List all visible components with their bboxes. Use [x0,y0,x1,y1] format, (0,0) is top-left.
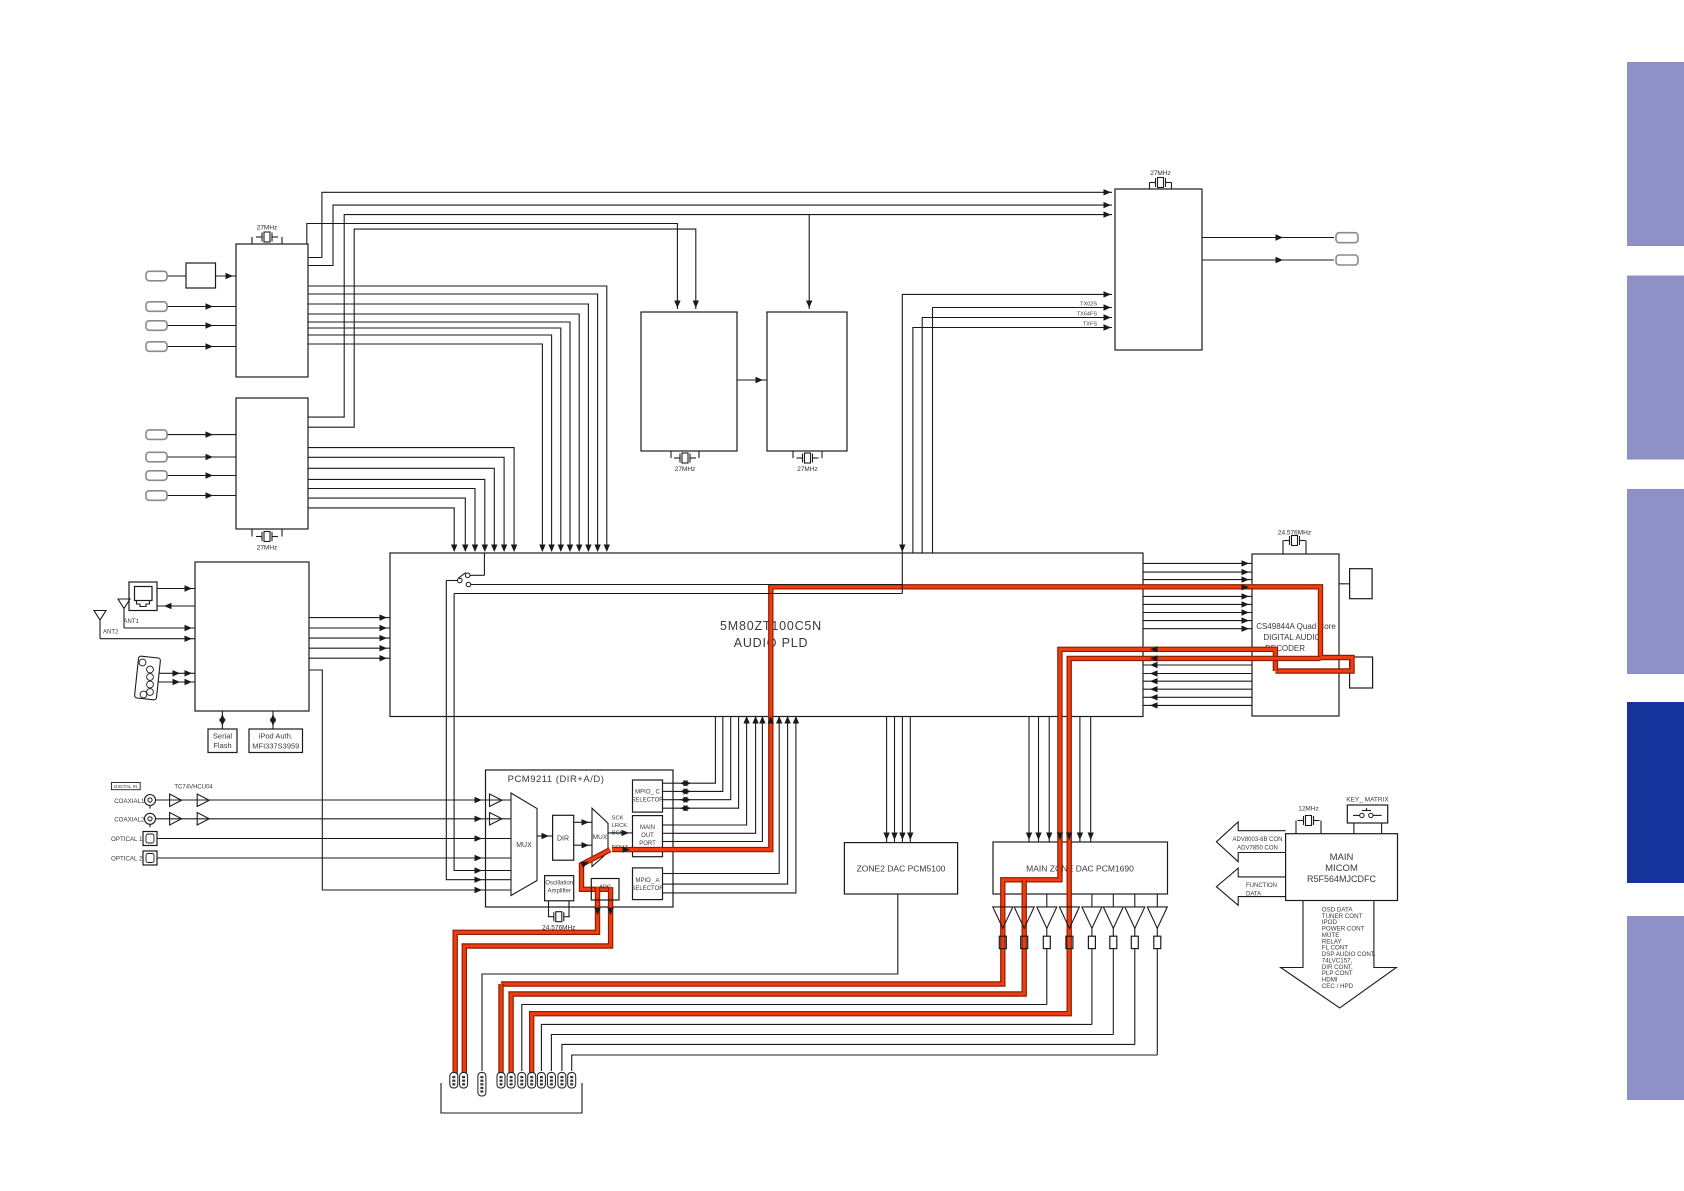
wire: ANT1 to U7 [124,627,195,629]
wire: PLD to PCM9211 MPIO_C line 2 [673,717,723,792]
wire: OPTICAL 1 to PCM9211 [157,838,486,840]
wire: DIN to U7 line 1 (bidirectional) [159,672,196,674]
svg-text:MAIN: MAIN [1330,852,1354,863]
connector pin 9 [547,1073,555,1089]
svg-text:PCM9211 (DIR+A/D): PCM9211 (DIR+A/D) [508,774,605,785]
wire TX64FS: PLD to U5 [922,318,1112,554]
wire: U2 output to U3 clock line [308,229,696,427]
svg-text:SCK: SCK [612,816,624,822]
connector pin 2 [460,1073,468,1089]
wire: branch of line 3 down into U4 [808,215,810,309]
antenna ANT2 [94,611,106,621]
svg-text:ADV7850 CON: ADV7850 CON [1237,845,1278,851]
crystal X4 27MHz under U4 [792,451,794,458]
audio PLD U6 5M80ZT100C5N [390,553,1143,717]
svg-text:12MHz: 12MHz [1298,806,1319,813]
outline arrow: micom function data connector [1216,868,1285,905]
outline arrow: micom control signals down [1281,901,1397,1008]
svg-text:MFI337S3959: MFI337S3959 [252,742,299,751]
wire: DIN to U7 line 2 (bidirectional) [159,681,196,683]
svg-text:LRCK: LRCK [612,823,628,829]
svg-text:ANT2: ANT2 [103,630,119,636]
wire: U1 top output to U3 [307,224,678,310]
HDMI switch IC block U1 (top-left) [236,244,308,377]
wire bundle: U2 outputs to PLD top (7 lines) [308,448,514,549]
svg-text:OPTICAL 1: OPTICAL 1 [111,836,143,843]
digital receiver U11 PCM9211 (DIR+A/D) [486,770,674,907]
red wire: CS49844A I2S out 2 through PLD and main DAC amp4 to pin 7 [532,658,1321,1073]
svg-text:ADV8003-8B CON: ADV8003-8B CON [1232,837,1282,843]
resistor R at x=1002.8 [999,936,1006,948]
svg-text:MICOM: MICOM [1325,863,1358,874]
page tab 2 [1627,276,1684,460]
wire group: PLD to zone2 DAC already drawn; zone2 DAC output to pin 3 [482,894,898,1071]
arrow on red ADC-to-MUX line [580,859,590,868]
svg-text:SELECTOR: SELECTOR [631,798,664,804]
connector pin 5 [507,1073,515,1089]
MPIO_C selector block inside PCM9211 [633,780,663,812]
wire: U7 to serial flash (bidirectional) [221,711,223,729]
resistor R at x=1046.8 [1043,936,1050,948]
amplifier A at x=1113.3 [1112,894,1114,907]
wire: HDMI input 7 to U2 [167,475,236,477]
wire: RJ45 to U7 [157,588,195,590]
arrows on red ADC outputs below PCM9211 [594,908,600,916]
outline arrow: micom to ADV8003/ADV7850 connector [1216,822,1285,862]
svg-text:MPIO_ A: MPIO_ A [635,878,659,884]
wire: PCM9211 main out BCK to PLD [673,717,762,842]
svg-text:24.576MHz: 24.576MHz [542,925,575,932]
svg-text:KEY_ MATRIX: KEY_ MATRIX [1346,797,1389,804]
output MUX inside PCM9211 [592,808,608,866]
crystal X8 24.576MHz under PCM9211 oscillation amp [548,901,550,917]
wire: OPTICAL 2 to PCM9211 [157,857,486,859]
page tab 1 [1627,62,1684,246]
wire: PLD to PCM9211 MPIO_C line 4 [673,717,739,809]
main micom U14 R5F564MJCDFC [1286,834,1398,901]
buffer amps on COAXIAL1 [170,794,182,807]
svg-text:R5F564MJCDFC: R5F564MJCDFC [1307,874,1377,884]
memory box right of CS49844A [1350,569,1373,599]
DIR block inside PCM9211 [553,815,574,860]
svg-text:CS49844A Quad Core: CS49844A Quad Core [1256,622,1336,631]
wire TX02S: PLD to U5 [933,308,1113,554]
crystal X3 27MHz under U3 [670,451,672,458]
wire: HDMI input 5 to U2 [167,434,236,436]
wires: PCM9211 inputs to MUX [486,799,512,801]
arrow on red DOUT line [623,846,631,852]
wire: COAXIAL2 to PCM9211 [156,818,486,820]
crystal X2 27MHz under U2 [251,529,253,537]
connector pin 8 [537,1073,545,1089]
MPIO_A selector block inside PCM9211 [633,868,663,900]
wire: HDMI input 4 to U1 [167,346,236,348]
wire: amp at 1157.3 to bottom connector pin at 571.7 [572,1055,1158,1071]
red wire: ADC output to output MUX inside PCM9211 [582,850,611,890]
key matrix switch block SW2 [1347,805,1387,823]
crystal X6 24.576MHz on CS49844A [1282,541,1284,555]
wire: DIR to output MUX line 1 [574,821,592,823]
wire: U1 output to HDMI transmitter U5 line 1 [308,192,1112,257]
page tab 5 [1627,916,1684,1100]
svg-text:ANT1: ANT1 [124,619,140,625]
connector pin 7 [528,1073,536,1089]
crystal X7 12MHz for micom [1295,821,1297,834]
svg-text:FUNCTION: FUNCTION [1246,883,1277,889]
amplifier A at x=1002.8 [993,907,1013,928]
switch SW1 inside PLD (input select) [483,553,485,575]
video processor block U4 (center-right) [767,312,847,451]
svg-text:Flash: Flash [213,741,231,750]
svg-text:TX64FS: TX64FS [1077,312,1098,318]
connector pin 11 [568,1073,576,1089]
svg-text:MPIO_ C: MPIO_ C [635,790,660,796]
wire: output MUX to main out port [608,832,633,834]
bottom board-to-board connector CN1 bracket [441,1083,582,1113]
video processor block U3 (center) [641,312,737,451]
amplifier A at x=1024.2 [1014,907,1034,928]
HDMI switch IC block U2 (left, second) [236,398,308,529]
wire: amp at 1046.8 to bottom connector pin at 521.8 [522,1005,1047,1072]
svg-text:OUT: OUT [641,833,654,839]
svg-text:Amplifier: Amplifier [548,889,571,895]
svg-text:Oscillation: Oscillation [545,881,573,887]
red wire: ADC right output down to bottom connector pin 2 [464,887,610,1074]
wire: PCM9211 MPIO_A line 1 to PLD [673,717,779,874]
arrows on red verticals entering main DAC [1057,833,1063,841]
svg-text:DIGITAL AUDIO: DIGITAL AUDIO [1263,633,1320,642]
svg-text:TC74VHCU04: TC74VHCU04 [174,785,213,791]
svg-text:MUX: MUX [593,834,608,841]
wire: COAXIAL1 to PCM9211 [156,799,486,801]
wire: HDMI input pill to ESD box (input 1) [167,275,186,277]
svg-text:OPTICAL 2: OPTICAL 2 [111,855,143,862]
svg-text:PORT: PORT [639,841,656,847]
HDMI output pill connectors right of U5 [1336,233,1358,243]
svg-text:Serial: Serial [213,732,233,741]
wire: MUX to DIR [537,835,553,837]
red wire: PCM9211 DOUT to CS49844A data input via PLD [612,587,1352,850]
buffer amps on COAXIAL2 [170,813,182,826]
red wire: main DAC branch to amp2 and pin 5 [511,880,1024,1074]
ESD protection box before U1 [186,263,216,288]
key matrix switch symbol [1360,813,1364,817]
svg-text:iPod Auth.: iPod Auth. [259,732,293,741]
wire: HDMI input 8 to U2 [167,495,236,497]
wire: PCM9211 MPIO_A line 3 to PLD [673,717,796,893]
wire: DIR to output MUX line 2 [574,844,592,846]
wires: main out port block to PCM9211 edge [663,824,674,826]
wire: HDMI input 6 to U2 [167,456,236,458]
wire: amp at 1134.8 to bottom connector pin at 561.9 [562,1044,1135,1071]
main zone DAC U13 PCM1690 [993,842,1168,894]
svg-text:COAXIAL2: COAXIAL2 [114,816,145,823]
wire group: CS49844A outputs back to PLD (6 black lines, arrows left) [1143,664,1252,666]
wires: PLD bottom to main DAC PCM1690 (5 black lines) [1028,717,1030,843]
resistor R at x=1069.4 [1066,936,1073,948]
connector pin 3 [478,1073,486,1097]
arrow on red DOUT vertical entering PLD bottom [768,716,774,724]
wires: PLD bottom to zone2 DAC (4 lines) [886,717,888,843]
wire: CS49844A to memory box [1339,583,1350,585]
RJ45 ethernet connector J1 [129,582,157,611]
input buffer amp A2 inside PCM9211 [490,813,503,826]
wire: switch contact A down to PCM9211 input [446,581,485,880]
wire: PCM9211 MPIO_A line 2 to PLD [673,717,788,885]
svg-text:TXFS: TXFS [1083,322,1097,328]
svg-text:DIGITAL IN: DIGITAL IN [114,784,137,789]
connector pin 6 [518,1073,526,1089]
wire: U1 output to HDMI transmitter U5 line 2 [308,205,1112,265]
svg-text:DATA: DATA [1246,891,1261,897]
oscillation amplifier block inside PCM9211 [545,876,574,901]
wire: PCM9211 main out SCK to PLD [673,717,747,826]
arrows on red I2S lines entering PLD [1150,646,1158,652]
wire TXFS: PLD to U5 [913,328,1112,554]
ADC block inside PCM9211 [591,879,619,901]
page tab 4 (current, dark) [1627,702,1684,883]
resistor R at x=1091.9 [1088,936,1095,948]
connector pin 4 [497,1073,505,1089]
wires: MPIO_A selector to PCM9211 edge [663,873,674,875]
amplifier A at x=1069.4 [1059,907,1079,928]
wire: ESD box to HDMI switch U1 with arrow [216,275,237,277]
input buffer amp A1 inside PCM9211 [490,794,503,807]
page tab 3 [1627,489,1684,674]
DSP U8 CS49844A quad core digital audio decoder [1252,554,1339,716]
svg-text:MAIN ZONE DAC PCM1690: MAIN ZONE DAC PCM1690 [1026,864,1134,874]
iPod authentication IC U10 MFI337S3959 [249,729,303,753]
HDMI transmitter block U5 (top-right) [1115,189,1202,350]
wire: switch pole to PLD internal net [471,584,903,586]
svg-text:24.576MHz: 24.576MHz [1278,530,1311,537]
wire: ANT2 to U7 [100,638,195,640]
wire: switch lever [458,573,466,579]
svg-text:COAXIAL1: COAXIAL1 [114,798,145,805]
resistor R at x=1113.3 [1110,936,1117,948]
wire: U5 HDMI output 2 to connector pill [1202,259,1334,261]
DIN tuner connector J2 [134,656,160,700]
wire: U7 digital audio out down to PCM9211 [309,670,486,890]
svg-text:ADC: ADC [599,885,611,891]
wire: amp at 1113.3 to bottom connector pin at 551.4 [551,1035,1113,1072]
crystal X5 27MHz on U5 [1149,183,1151,190]
resistor R at x=1157.3 [1154,936,1161,948]
amplifier A at x=1046.8 [1046,894,1048,907]
wire: U2 output to HDMI transmitter U5 line 3 with branch to U4 [308,215,1112,418]
wire: internal net down to PCM9211 input [454,594,485,871]
svg-text:MUX: MUX [516,842,532,849]
connector pin 1 [450,1073,458,1089]
resistor R at x=1134.8 [1131,936,1138,948]
svg-text:27MHz: 27MHz [1150,170,1171,177]
resistor R at x=1024.2 [1021,936,1028,948]
wire: PLD to PCM9211 MPIO_C line 3 [673,717,731,800]
wire: HDMI input 3 to U1 [167,325,236,327]
wire: PLD TX feedback line to U5 [902,294,1112,553]
wire: U7 to iPod auth IC (bidirectional) [272,711,274,729]
wire: U7 to RJ45 [157,605,195,607]
antenna ANT1 [118,599,130,609]
crystal X1 27MHz on U1 [251,237,253,244]
amplifier A at x=1091.9 [1091,894,1093,907]
amplifier A at x=1134.8 [1134,894,1136,907]
wire: PCM9211 main out LRCK to PLD [673,717,756,834]
main out port block inside PCM9211 [633,816,663,857]
svg-text:27MHz: 27MHz [257,545,278,552]
wire: HDMI input 2 to U1 [167,306,236,308]
serial flash memory U9 [208,729,237,753]
svg-text:ZONE2 DAC PCM5100: ZONE2 DAC PCM5100 [857,864,946,874]
svg-text:DIR: DIR [557,836,569,843]
network/iPod module block U7 (left) [195,562,309,711]
wire group: U7 to PLD (5 lines) [309,617,390,619]
svg-text:27MHz: 27MHz [257,225,278,232]
wires: MPIO_C selector to PCM9211 edge (bidirectional) [663,782,674,784]
wire: amp at 1091.9 to bottom connector pin at 541.4 [541,1024,1092,1071]
red wire: CS49844A I2S out 1 through PLD to main DAC and amp1 to pin 4 [501,649,1275,984]
wire bundle: U1 outputs to PLD top (8 lines) [308,286,607,549]
connector pin 10 [558,1073,566,1089]
svg-text:MAIN: MAIN [640,825,655,831]
svg-text:27MHz: 27MHz [675,466,696,473]
input MUX inside PCM9211 [511,793,537,896]
wire: U5 HDMI output 1 to connector pill [1202,237,1334,239]
svg-text:CEC / HPD: CEC / HPD [1322,983,1354,990]
zone2 DAC U12 PCM5100 [844,843,957,894]
HDMI input pill connectors left of U2 [146,430,167,440]
amplifier A at x=1157.3 [1156,894,1158,907]
I/O box right of CS49844A [1350,657,1373,688]
wire group: PLD to CS49844A inputs (8 black lines, arrows right) [1143,562,1252,564]
HDMI input pill connectors left of U1 [146,271,167,281]
svg-text:SELECTOR: SELECTOR [631,886,664,892]
red wire: ADC left output down to bottom connector pin 1 [455,887,597,1074]
svg-text:TX02S: TX02S [1080,302,1097,308]
arrow on red data line entering CS49844A [1242,584,1250,590]
DIGITAL IN label box [111,783,140,790]
wire: PLD to PCM9211 MPIO_C line 1 [673,717,715,784]
wires: key matrix to micom [1353,823,1355,834]
wire: U3 to U4 interconnect [737,379,767,381]
svg-text:27MHz: 27MHz [797,466,818,473]
